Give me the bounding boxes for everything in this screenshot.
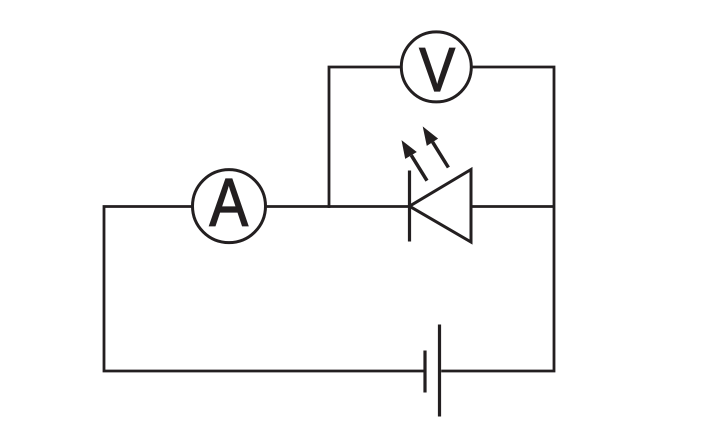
wire: ammeter left terminal, left side down to battery negative [104,207,424,372]
wire: node A junction up to voltmeter left terminal [329,67,402,208]
battery B1 negative plate (short) [423,351,426,393]
wire: voltmeter right terminal, right side down to battery positive [441,67,554,371]
voltmeter V1 [401,32,471,105]
LED D1 light arrow 2 [423,126,449,167]
LED D1 cathode bar [408,171,411,242]
LED D1 light arrow 1 [402,140,428,181]
LED D1 triangle [410,170,472,243]
wire: ammeter right terminal to LED cathode (through node A) [265,205,410,208]
battery B1 positive plate (long) [438,325,441,417]
ammeter A1 [193,165,266,242]
svg-text:V: V [419,35,455,105]
wire: LED anode to right side [471,205,554,208]
svg-text:A: A [209,165,248,240]
